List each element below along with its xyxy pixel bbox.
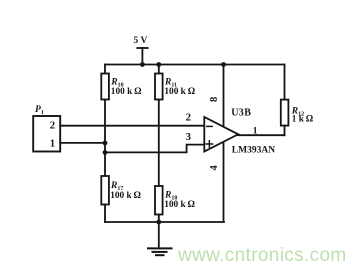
resistor R11 <box>155 74 163 100</box>
svg-text:2: 2 <box>50 120 55 132</box>
wire P1 pin 2 to inverting input <box>60 125 204 127</box>
svg-text:3: 3 <box>186 131 192 143</box>
5 V supply symbol <box>137 48 147 65</box>
svg-text:100 k Ω: 100 k Ω <box>164 87 195 97</box>
resistor R17 <box>101 176 109 205</box>
op-amp U3B triangle <box>204 117 238 152</box>
resistor R10 <box>101 74 109 100</box>
svg-text:4: 4 <box>209 164 220 170</box>
svg-text:100 k Ω: 100 k Ω <box>110 191 141 201</box>
op-amp minus sign <box>207 125 212 127</box>
wire op-amp pin 4 to ground rail <box>223 142 225 222</box>
junction 5V on rail <box>140 62 145 67</box>
connector P1 box <box>33 116 60 152</box>
wire R17 lower lead <box>104 205 106 223</box>
wire top power rail <box>105 64 285 66</box>
junction ground on bottom rail <box>156 220 161 225</box>
wire R11 branch upper lead <box>158 65 160 74</box>
svg-text:5 V: 5 V <box>134 36 148 46</box>
wire R12 lower lead <box>284 126 286 136</box>
svg-text:1: 1 <box>50 137 55 149</box>
wire R10 to R17 <box>104 100 106 177</box>
svg-text:2: 2 <box>186 112 191 124</box>
resistor R18 <box>155 186 163 215</box>
junction divider to +input wire <box>103 150 108 155</box>
svg-text:www.cntronics.com: www.cntronics.com <box>177 245 347 266</box>
wire R10 branch upper lead <box>104 65 106 74</box>
junction P1 pin1 at divider <box>103 141 108 146</box>
wire R11 to R18 <box>158 100 160 187</box>
wire divider node to non-inverting input <box>105 145 204 153</box>
svg-text:8: 8 <box>209 97 220 102</box>
resistor R12 <box>281 100 289 126</box>
wire op-amp pin 8 supply <box>223 65 225 127</box>
wire R12 upper lead <box>284 65 286 100</box>
wire op-amp output <box>238 134 284 136</box>
ground <box>148 222 172 255</box>
junction pin8 branch on rail <box>221 62 226 67</box>
wire P1 pin 1 to divider node <box>60 142 105 144</box>
svg-text:100 k Ω: 100 k Ω <box>164 200 195 210</box>
wire R18 lower lead <box>158 215 160 223</box>
junction R11 top on rail <box>156 62 161 67</box>
op-amp plus sign <box>206 141 212 147</box>
svg-text:1: 1 <box>253 126 258 136</box>
wire bottom rail <box>105 221 224 223</box>
svg-text:1 k Ω: 1 k Ω <box>292 114 314 124</box>
svg-text:100 k Ω: 100 k Ω <box>111 87 142 97</box>
svg-text:LM393AN: LM393AN <box>232 145 275 155</box>
svg-text:P1: P1 <box>35 105 44 116</box>
svg-text:U3B: U3B <box>231 108 251 119</box>
